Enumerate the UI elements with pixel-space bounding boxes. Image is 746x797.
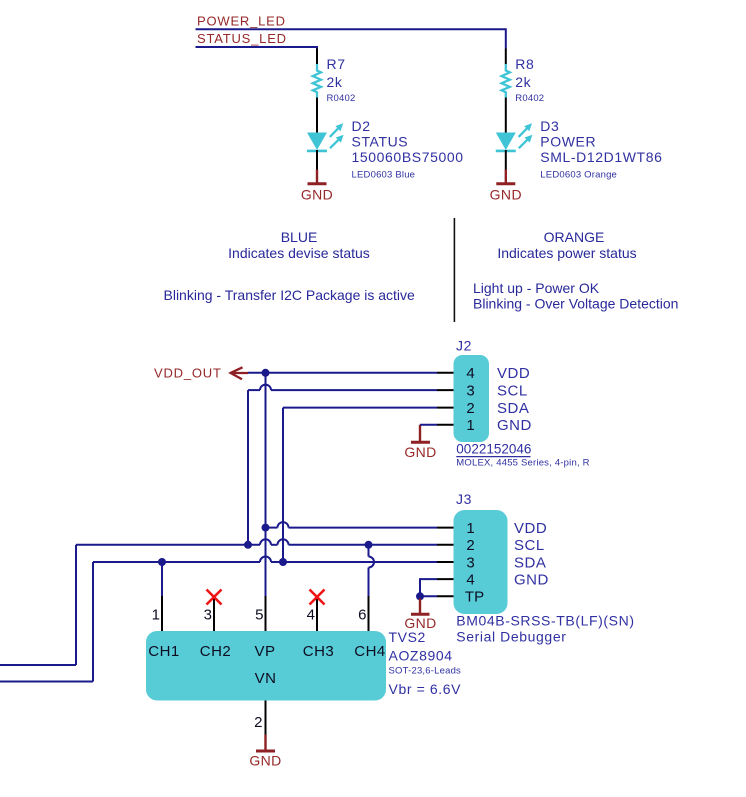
svg-text:GND: GND: [490, 187, 522, 203]
svg-text:BM04B-SRSS-TB(LF)(SN): BM04B-SRSS-TB(LF)(SN): [456, 613, 634, 629]
svg-text:4: 4: [307, 607, 315, 624]
ground GND (J2 pin 1): [404, 425, 436, 460]
svg-text:GND: GND: [301, 187, 333, 203]
svg-text:4: 4: [466, 572, 474, 589]
svg-text:Indicates devise status: Indicates devise status: [228, 245, 370, 261]
resistor R8: [502, 49, 545, 133]
svg-text:SDA: SDA: [514, 554, 546, 571]
divider line: [453, 218, 455, 322]
svg-text:150060BS75000: 150060BS75000: [352, 149, 464, 165]
svg-text:Vbr = 6.6V: Vbr = 6.6V: [389, 681, 462, 697]
svg-text:ORANGE: ORANGE: [544, 229, 605, 245]
svg-text:GND: GND: [249, 753, 281, 769]
svg-text:3: 3: [466, 554, 474, 571]
svg-text:R7: R7: [327, 56, 346, 72]
note ORANGE block: [473, 229, 678, 312]
svg-text:VDD: VDD: [514, 520, 547, 537]
svg-text:3: 3: [204, 607, 212, 624]
svg-text:CH2: CH2: [200, 643, 232, 660]
LED D3: [496, 118, 663, 181]
svg-text:SML-D12D1WT86: SML-D12D1WT86: [540, 149, 662, 165]
svg-text:Light up - Power OK: Light up - Power OK: [473, 280, 600, 296]
junction SDA vertical end: [279, 558, 287, 566]
wire VDD vertical: [265, 373, 267, 596]
wire CH1 vertical: [161, 562, 163, 596]
junction CH1 branch: [158, 558, 166, 566]
svg-text:2k: 2k: [327, 74, 343, 90]
svg-text:3: 3: [466, 383, 474, 400]
connector J3: [437, 491, 635, 645]
svg-text:R8: R8: [515, 56, 534, 72]
wire VDD row to J2 pin 4: [248, 372, 437, 374]
svg-text:LED0603 Blue: LED0603 Blue: [352, 170, 416, 181]
svg-text:STATUS: STATUS: [352, 134, 409, 150]
svg-text:SCL: SCL: [514, 537, 545, 554]
svg-text:LED0603 Orange: LED0603 Orange: [540, 170, 617, 181]
wire GND to J2 pin 1: [420, 424, 437, 426]
wire J3 SCL row (hops over VDD and SDA): [0, 539, 437, 665]
svg-text:2k: 2k: [515, 74, 531, 90]
svg-text:D3: D3: [540, 118, 559, 134]
junction VDD at J3 pin1: [262, 524, 270, 532]
svg-text:6: 6: [358, 607, 366, 624]
connector J2: [437, 338, 590, 469]
svg-text:Blinking - Over Voltage Detect: Blinking - Over Voltage Detection: [473, 296, 678, 312]
svg-text:VN: VN: [255, 670, 277, 687]
ground GND (TVS VN): [249, 735, 281, 769]
svg-text:GND: GND: [404, 444, 436, 460]
svg-text:TVS2: TVS2: [389, 629, 426, 645]
svg-text:POWER_LED: POWER_LED: [197, 14, 286, 29]
svg-text:AOZ8904: AOZ8904: [389, 647, 453, 663]
svg-text:2: 2: [466, 537, 474, 554]
svg-text:VDD_OUT: VDD_OUT: [154, 366, 222, 381]
svg-text:VP: VP: [254, 643, 275, 660]
wire SCL row to J2 pin 3 (hop over VDD): [248, 385, 437, 390]
svg-text:VDD: VDD: [497, 365, 530, 382]
svg-text:1: 1: [466, 417, 474, 434]
svg-text:1: 1: [152, 607, 160, 624]
svg-text:4: 4: [466, 365, 474, 382]
svg-text:GND: GND: [514, 572, 549, 589]
port VDD_OUT: [154, 366, 248, 381]
wire STATUS_LED net: [196, 47, 318, 50]
wire J3 VDD row (hop over SDA): [266, 522, 438, 528]
wire SCL vertical: [247, 390, 249, 545]
svg-text:D2: D2: [352, 118, 371, 134]
no-connect X on CH2 pin: [207, 590, 222, 605]
wire J3 GND pin4 to TP junction: [420, 579, 437, 596]
svg-text:CH4: CH4: [354, 643, 386, 660]
wire SDA row to J2 pin 2: [283, 407, 437, 409]
svg-text:SOT-23,6-Leads: SOT-23,6-Leads: [389, 666, 462, 677]
svg-text:TP: TP: [465, 589, 484, 606]
svg-text:R0402: R0402: [327, 93, 356, 104]
svg-text:CH1: CH1: [148, 643, 180, 660]
wire POWER_LED net: [196, 29, 506, 48]
ground GND (J3): [404, 599, 436, 632]
svg-text:Blinking - Transfer I2C Packag: Blinking - Transfer I2C Package is activ…: [164, 287, 416, 303]
wire J3 SDA row (hop over VDD): [0, 557, 437, 682]
TVS TVS2: [146, 596, 461, 735]
note BLUE block: [164, 229, 416, 303]
svg-text:BLUE: BLUE: [281, 229, 318, 245]
junction CH4 branch: [365, 541, 373, 549]
wire SDA vertical: [282, 408, 284, 562]
svg-text:Indicates power status: Indicates power status: [497, 245, 636, 261]
svg-text:STATUS_LED: STATUS_LED: [197, 31, 287, 46]
svg-text:2: 2: [254, 714, 262, 731]
svg-text:SDA: SDA: [497, 400, 529, 417]
junction SCL vertical end: [244, 541, 252, 549]
svg-text:SCL: SCL: [497, 383, 528, 400]
svg-text:POWER: POWER: [540, 134, 596, 150]
svg-text:Serial Debugger: Serial Debugger: [456, 629, 566, 645]
ground GND (below D2): [301, 170, 333, 203]
svg-text:2: 2: [466, 400, 474, 417]
ground GND (below D3): [490, 170, 522, 203]
wire CH4 vertical (hops over SDA row): [369, 545, 375, 596]
svg-text:0022152046: 0022152046: [456, 442, 531, 457]
svg-text:5: 5: [255, 607, 263, 624]
resistor R7: [313, 49, 356, 133]
svg-text:MOLEX, 4455 Series, 4-pin, R: MOLEX, 4455 Series, 4-pin, R: [456, 457, 589, 468]
LED D2: [307, 118, 464, 181]
svg-text:J2: J2: [456, 338, 472, 354]
svg-text:CH3: CH3: [303, 643, 335, 660]
svg-text:R0402: R0402: [515, 93, 544, 104]
junction VDD at J2 pin4: [262, 369, 270, 377]
junction TP/GND: [416, 592, 424, 600]
no-connect X on CH3 pin: [310, 590, 325, 605]
svg-text:GND: GND: [497, 417, 532, 434]
svg-text:1: 1: [466, 520, 474, 537]
svg-text:J3: J3: [456, 491, 472, 507]
